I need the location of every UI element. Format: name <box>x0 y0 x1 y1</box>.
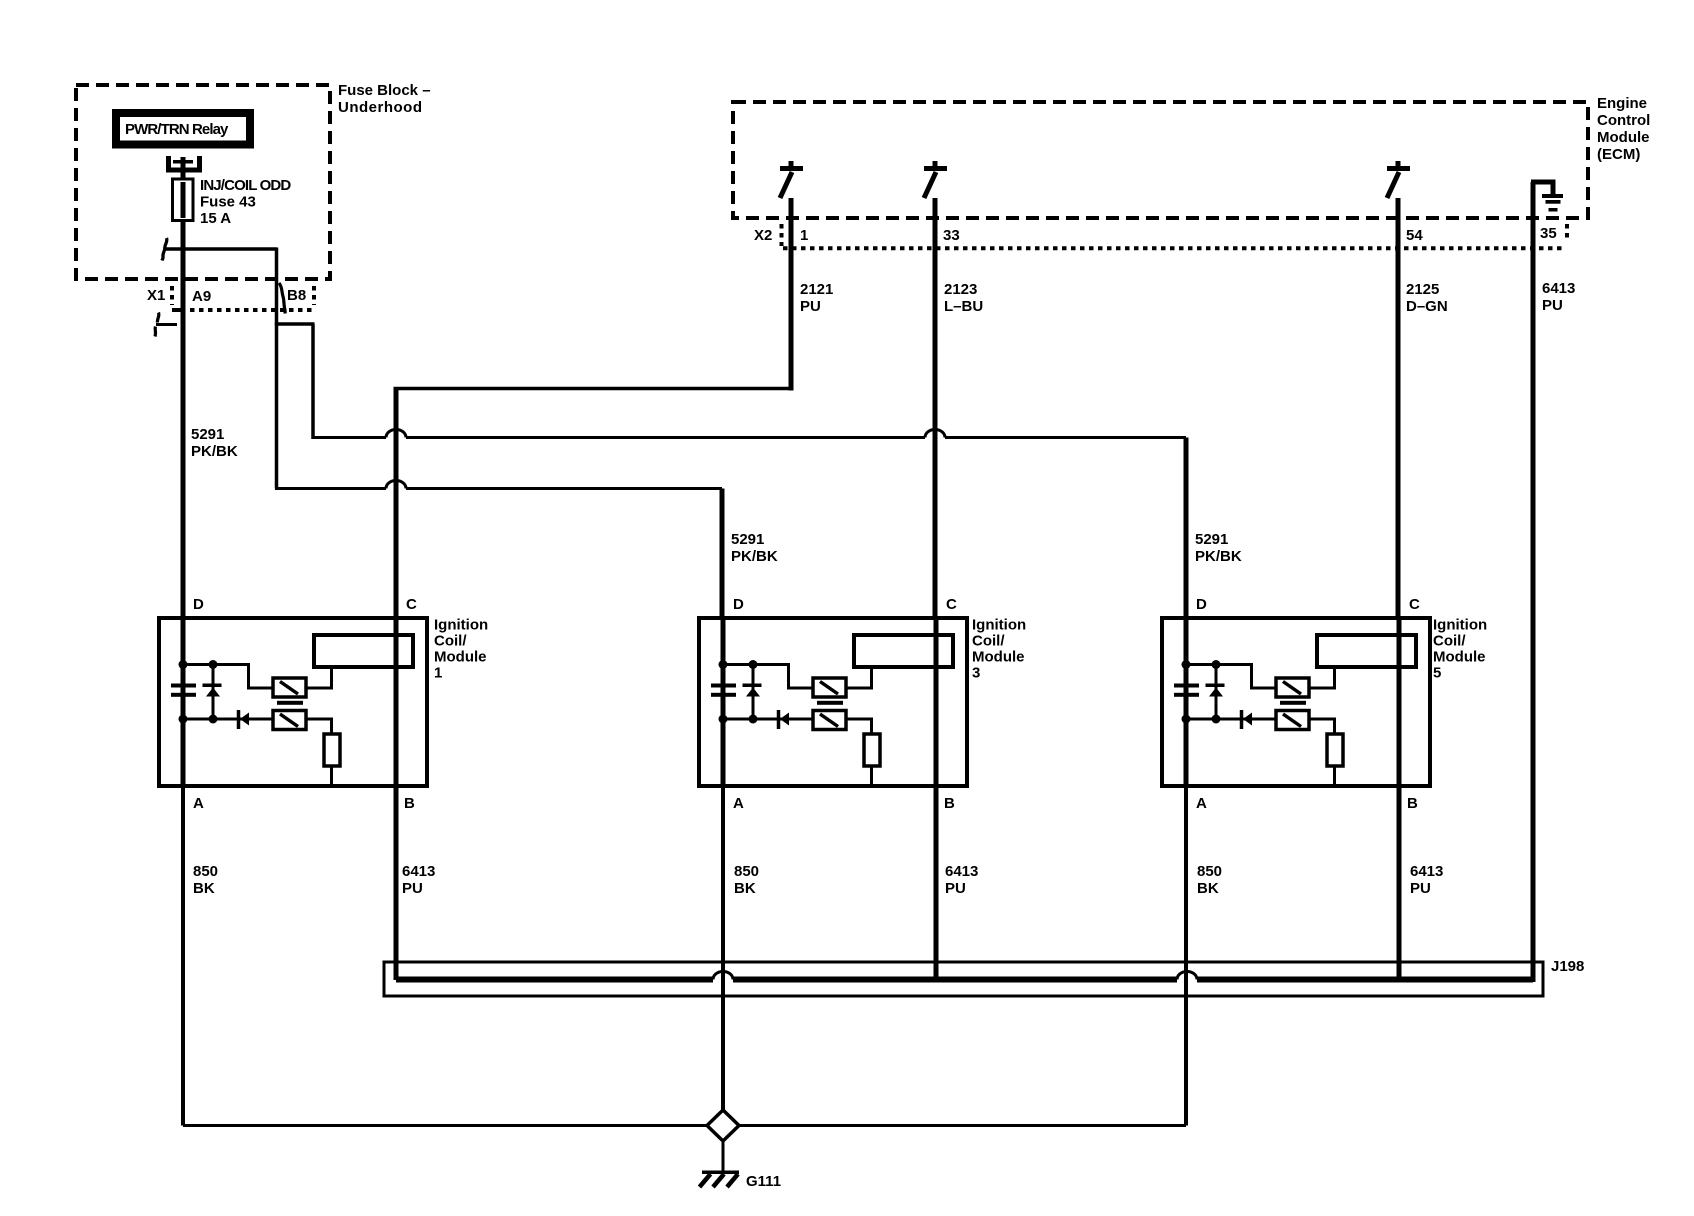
ignition coil/module 5 box <box>1162 618 1430 786</box>
junction module 1 upper left <box>179 660 188 669</box>
wire driver1 to coil module 5 <box>1309 665 1335 688</box>
wire 850 BK module3 pin A down thru J198 <box>721 786 725 1110</box>
driver block 2 module 5 <box>1276 711 1309 730</box>
diode (horizontal, pointing left) module 1 <box>239 710 250 729</box>
driver block 1 module 5 <box>1276 678 1309 697</box>
junction module 3 upper left <box>719 660 728 669</box>
connector X2 separator dotted <box>780 224 784 246</box>
driver block 2 module 1 <box>273 711 306 730</box>
svg-text:54: 54 <box>1406 227 1423 244</box>
svg-text:G111: G111 <box>746 1173 781 1190</box>
wire 850 BK module1 pin A down <box>181 786 185 1126</box>
diode (vertical) module 3 <box>743 666 762 719</box>
resistor module 5 <box>1327 734 1343 766</box>
wire 2121 PU down to module1 pin C <box>394 389 399 619</box>
wire through fuse <box>181 182 186 218</box>
transformer core bar module 3 <box>817 701 843 705</box>
wire 2123 L-BU pin33 to module3 pin C <box>933 198 938 618</box>
svg-text:D: D <box>193 596 204 613</box>
connector X1 right separator dotted <box>312 286 316 305</box>
ECM driver switch pin 33 <box>924 161 947 198</box>
svg-text:B8: B8 <box>287 287 306 304</box>
wire 6413 PU module3 pin B to J198 <box>934 786 939 980</box>
connector X2 dotted line <box>783 246 1566 250</box>
wire B8 jog right <box>277 322 315 326</box>
wire 850 BK to splice (right) <box>739 1124 1186 1127</box>
fuse F43 INJ/COIL ODD 15A <box>173 179 194 221</box>
wire 6413 PU module1 pin B to J198 <box>394 786 399 980</box>
wire driver2 to resistor module 5 <box>1309 719 1335 735</box>
wire B8 vertical drop <box>275 248 279 326</box>
wire pin D to pin A through module 1 <box>181 618 186 786</box>
svg-text:A: A <box>193 795 204 812</box>
wire 850 BK to splice (left) <box>183 1124 706 1127</box>
capacitor module 5 <box>1174 684 1199 697</box>
svg-text:C: C <box>946 596 957 613</box>
svg-text:850BK: 850BK <box>1197 863 1222 897</box>
svg-text:850BK: 850BK <box>734 863 759 897</box>
transformer core bar module 1 <box>277 701 303 705</box>
ignition coil/module 3 box <box>699 618 967 786</box>
internal wire upper branch module 1 <box>183 665 273 689</box>
svg-text:850BK: 850BK <box>193 863 218 897</box>
diode (vertical) module 1 <box>203 666 222 719</box>
wire 5291 horizontal run to module 3 <box>313 436 1186 439</box>
driver block 1 module 3 <box>813 678 846 697</box>
relay K PWR/TRN Relay box <box>116 113 250 145</box>
wire B8 drop to bus line <box>311 324 315 439</box>
wire hop over 2121 wire (lower) <box>386 481 406 489</box>
wire pin D to pin A through module 3 <box>721 618 726 786</box>
junction module 3 upper diode <box>749 660 758 669</box>
coil winding block module 5 <box>1317 635 1416 667</box>
svg-text:A9: A9 <box>192 288 211 305</box>
ground G111 <box>700 1171 740 1188</box>
diode (vertical) module 5 <box>1206 666 1225 719</box>
transformer core bar module 5 <box>1280 701 1306 705</box>
diode (horizontal, pointing left) module 5 <box>1242 710 1253 729</box>
wire splice to G111 <box>722 1141 725 1172</box>
wire driver1 to coil module 1 <box>306 665 332 688</box>
bus hop over 850 wire (module5) <box>1177 972 1197 980</box>
internal wire upper branch module 5 <box>1186 665 1276 689</box>
connector X1 separator dotted <box>170 286 174 305</box>
wire B8 second drop <box>275 323 279 489</box>
svg-text:X1: X1 <box>147 287 165 304</box>
wire driver2 to resistor module 1 <box>306 719 332 735</box>
ECM internal ground (pin 35) <box>1531 182 1563 212</box>
resistor module 1 <box>324 734 340 766</box>
wire resistor to case module 5 <box>1333 766 1336 784</box>
svg-text:C: C <box>1409 596 1420 613</box>
svg-text:D: D <box>1196 596 1207 613</box>
relay output terminal bracket <box>169 156 200 170</box>
wire 5291 down to module 3 pin D <box>720 489 725 619</box>
coil winding block module 1 <box>314 635 413 667</box>
wire hop over 2123 wire <box>925 430 945 438</box>
wire 5291 horizontal run to module 2 <box>275 487 722 490</box>
wire hop over 2121 wire <box>386 430 406 438</box>
svg-text:J198: J198 <box>1551 958 1584 975</box>
svg-text:A: A <box>1196 795 1207 812</box>
resistor module 3 <box>864 734 880 766</box>
diode (horizontal, pointing left) module 3 <box>779 710 790 729</box>
wire 2121 PU horizontal <box>394 387 794 391</box>
svg-text:PWR/TRN Relay: PWR/TRN Relay <box>125 121 229 138</box>
svg-text:Fuse Block –Underhood: Fuse Block –Underhood <box>338 82 431 116</box>
capacitor module 3 <box>711 684 736 697</box>
internal wire lower branch module 1 <box>183 718 273 721</box>
connector X2 right separator dotted <box>1565 224 1569 242</box>
bus hop over 850 wire (module3) <box>713 972 733 980</box>
wire pin C through module 5 <box>1397 618 1402 786</box>
splice diamond <box>707 1110 739 1141</box>
wire 6413 PU pin35 to J198 <box>1531 182 1536 982</box>
terminal clip A9 <box>155 308 181 337</box>
wire 5291 down to module 5 pin D <box>1184 438 1189 619</box>
svg-text:C: C <box>406 596 417 613</box>
driver block 1 module 1 <box>273 678 306 697</box>
internal wire lower branch module 5 <box>1186 718 1276 721</box>
svg-text:B: B <box>404 795 415 812</box>
wire driver2 to resistor module 3 <box>846 719 872 735</box>
svg-text:2123L–BU: 2123L–BU <box>944 281 983 315</box>
wire 850 BK module5 pin A down thru J198 <box>1184 786 1188 1126</box>
junction module 5 lower left <box>1182 715 1191 724</box>
terminal clip at branch <box>162 238 167 261</box>
svg-text:B: B <box>944 795 955 812</box>
junction module 3 lower diode <box>749 715 758 724</box>
splice pack J198 bus bar <box>396 977 1533 983</box>
junction module 1 lower diode <box>209 715 218 724</box>
junction module 5 upper left <box>1182 660 1191 669</box>
ECM driver switch pin 54 <box>1387 161 1410 198</box>
ignition coil/module 1 box <box>159 618 427 786</box>
wire pin D to pin A through module 5 <box>1184 618 1189 786</box>
junction module 1 upper diode <box>209 660 218 669</box>
driver block 2 module 3 <box>813 711 846 730</box>
svg-text:1: 1 <box>800 227 808 244</box>
internal wire lower branch module 3 <box>723 718 813 721</box>
wire 6413 PU module5 pin B to J198 <box>1397 786 1402 980</box>
svg-text:33: 33 <box>943 227 960 244</box>
svg-text:B: B <box>1407 795 1418 812</box>
splice pack J198 box <box>384 962 1543 996</box>
wire pin C through module 3 <box>934 618 939 786</box>
svg-text:35: 35 <box>1540 225 1557 242</box>
svg-text:A: A <box>733 795 744 812</box>
wire relay to fuse <box>181 157 186 180</box>
capacitor module 1 <box>171 684 196 697</box>
svg-text:D: D <box>733 596 744 613</box>
internal wire upper branch module 3 <box>723 665 813 689</box>
wire driver1 to coil module 3 <box>846 665 872 688</box>
wire resistor to case module 1 <box>330 766 333 784</box>
wire 2125 D-GN pin54 to module5 pin C <box>1396 198 1401 618</box>
connector X1 dotted line <box>172 308 316 312</box>
junction module 1 lower left <box>179 715 188 724</box>
junction module 5 lower diode <box>1212 715 1221 724</box>
wire 2121 PU from pin 1 <box>789 198 794 391</box>
wire 5291 A9 trunk (fuse to module1 pin D) <box>181 220 186 618</box>
junction module 3 lower left <box>719 715 728 724</box>
ECM dashed box <box>733 102 1588 218</box>
fuse block - underhood dashed box <box>76 85 330 279</box>
wire resistor to case module 3 <box>870 766 873 784</box>
coil winding block module 3 <box>854 635 953 667</box>
ECM driver switch pin 1 <box>780 161 803 198</box>
wire branch to B8 <box>166 247 277 251</box>
junction module 5 upper diode <box>1212 660 1221 669</box>
terminal clip B8 <box>279 283 285 314</box>
svg-text:X2: X2 <box>754 227 772 244</box>
wire pin C through module 1 <box>394 618 399 786</box>
